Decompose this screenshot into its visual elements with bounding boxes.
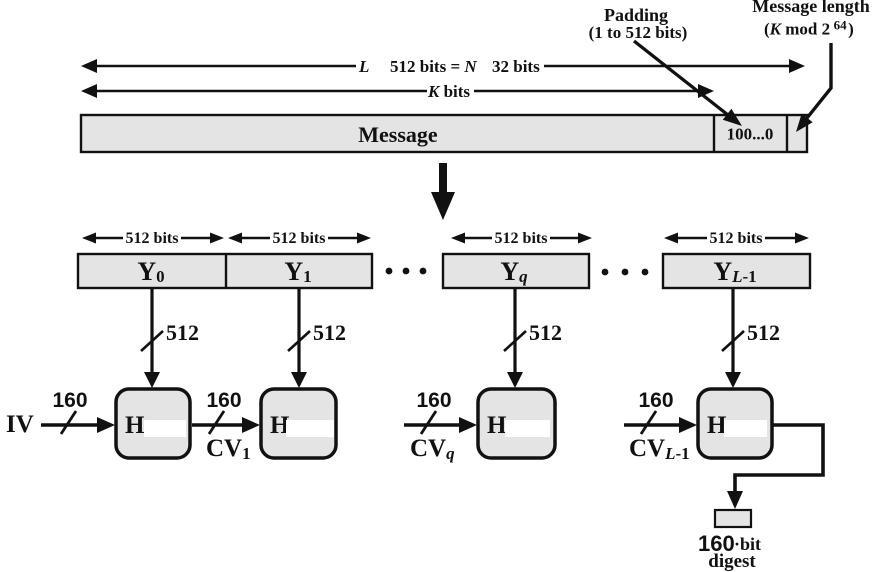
label Message length — [752, 0, 869, 39]
svg-text:H: H — [487, 412, 507, 439]
svg-text:512: 512 — [529, 320, 562, 345]
svg-text:160: 160 — [416, 389, 451, 412]
wire Y1 to H2 with 512 slash — [288, 289, 346, 388]
H box H3 — [478, 389, 555, 458]
label Padding — [589, 5, 688, 42]
H box H4 — [698, 389, 772, 458]
wire IV to H1 with 160 slash — [41, 389, 115, 434]
svg-text:digest: digest — [708, 551, 756, 572]
svg-text:512: 512 — [166, 320, 199, 345]
wire CVq to H3 with 160 slash — [404, 389, 477, 463]
512-bits double arrow 4 — [664, 230, 809, 247]
arrow message-length pointer — [796, 43, 831, 132]
arrow K bits — [81, 82, 714, 101]
big down arrow — [431, 163, 455, 220]
svg-text:512 bits: 512 bits — [710, 230, 763, 247]
svg-text:512 bits = N: 512 bits = N — [390, 57, 477, 76]
H box H1 — [116, 389, 190, 458]
svg-text:(1 to 512 bits): (1 to 512 bits) — [589, 23, 688, 42]
wire CVL-1 to H4 with 160 slash — [624, 389, 697, 463]
svg-text:Padding: Padding — [604, 5, 668, 25]
svg-text:512: 512 — [747, 320, 780, 345]
wire H4 output to digest — [727, 425, 823, 509]
dots 2 — [602, 269, 649, 276]
svg-text:32 bits: 32 bits — [492, 57, 540, 76]
message box — [81, 115, 807, 152]
svg-text:L: L — [358, 57, 369, 76]
svg-text:512 bits: 512 bits — [495, 230, 548, 247]
arrow L 512 bits = N 32 bits — [81, 57, 805, 76]
block Y0 Y1 — [78, 254, 372, 288]
block YL-1 — [663, 254, 810, 288]
svg-text:512 bits: 512 bits — [126, 230, 179, 247]
arrow padding pointer — [634, 41, 742, 126]
wire H1 to H2 with 160 slash, CV1 — [192, 389, 260, 463]
block Yq — [443, 254, 589, 288]
svg-text:160: 160 — [52, 389, 87, 412]
svg-text:512 bits: 512 bits — [273, 230, 326, 247]
svg-text:160: 160 — [638, 389, 673, 412]
svg-text:Message: Message — [358, 122, 438, 147]
svg-text:Message length: Message length — [752, 0, 869, 16]
svg-text:512: 512 — [313, 320, 346, 345]
512-bits double arrow 3 — [451, 230, 592, 247]
wire YL-1 to H4 with 512 slash — [722, 289, 780, 388]
svg-text:100...0: 100...0 — [727, 125, 774, 144]
svg-text:H: H — [125, 412, 145, 439]
512-bits double arrow 2 — [228, 230, 371, 247]
digest box — [715, 510, 751, 527]
svg-text:160: 160 — [206, 389, 241, 412]
H box H2 — [261, 389, 336, 458]
dots 1 — [386, 268, 427, 275]
wire Y0 to H1 with 512 slash — [141, 289, 199, 388]
512-bits double arrow 1 — [82, 230, 224, 247]
wire Yq to H3 with 512 slash — [504, 289, 562, 388]
label 160-bit digest — [698, 531, 761, 572]
svg-text:K bits: K bits — [427, 82, 470, 101]
svg-text:IV: IV — [6, 411, 34, 438]
